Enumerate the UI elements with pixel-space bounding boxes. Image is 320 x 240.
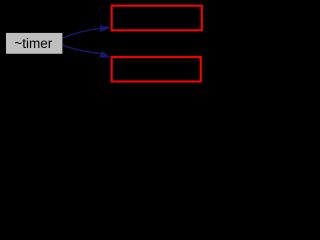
node ~timer [6, 33, 62, 54]
truncated node top [112, 6, 202, 31]
background [0, 0, 209, 88]
call graph canvas [0, 0, 209, 88]
edge to bottom node [63, 45, 111, 57]
svg-text:~timer: ~timer [14, 36, 52, 51]
truncated node bottom [112, 57, 201, 81]
edge to top node [63, 26, 111, 39]
